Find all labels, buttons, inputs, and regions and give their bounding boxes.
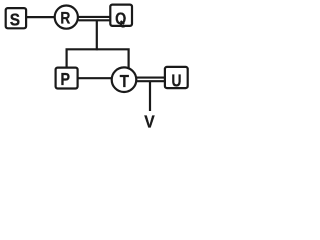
node R (55, 6, 78, 29)
svg-text:S: S (10, 10, 20, 30)
svg-text:P: P (61, 71, 71, 90)
node Q (110, 5, 132, 29)
wire descent from T=U to V (149, 81, 151, 111)
svg-text:V: V (144, 112, 154, 131)
wire R=Q upper (79, 16, 111, 18)
svg-text:T: T (120, 72, 129, 91)
node S (6, 8, 26, 30)
node P (56, 68, 78, 90)
wire S-R (26, 16, 55, 18)
wire descent from R=Q to sibling bar (96, 20, 98, 50)
wire T=U lower (137, 80, 165, 82)
wire sibling bar with drops to P and T (67, 49, 129, 68)
svg-text:Q: Q (115, 10, 126, 28)
node V label (144, 112, 154, 132)
node T (112, 67, 137, 92)
wire R=Q lower (79, 19, 111, 21)
svg-text:U: U (171, 72, 181, 91)
wire P-T (78, 77, 112, 79)
wire T=U upper (137, 77, 165, 79)
node U (165, 67, 188, 91)
svg-text:R: R (60, 9, 70, 28)
